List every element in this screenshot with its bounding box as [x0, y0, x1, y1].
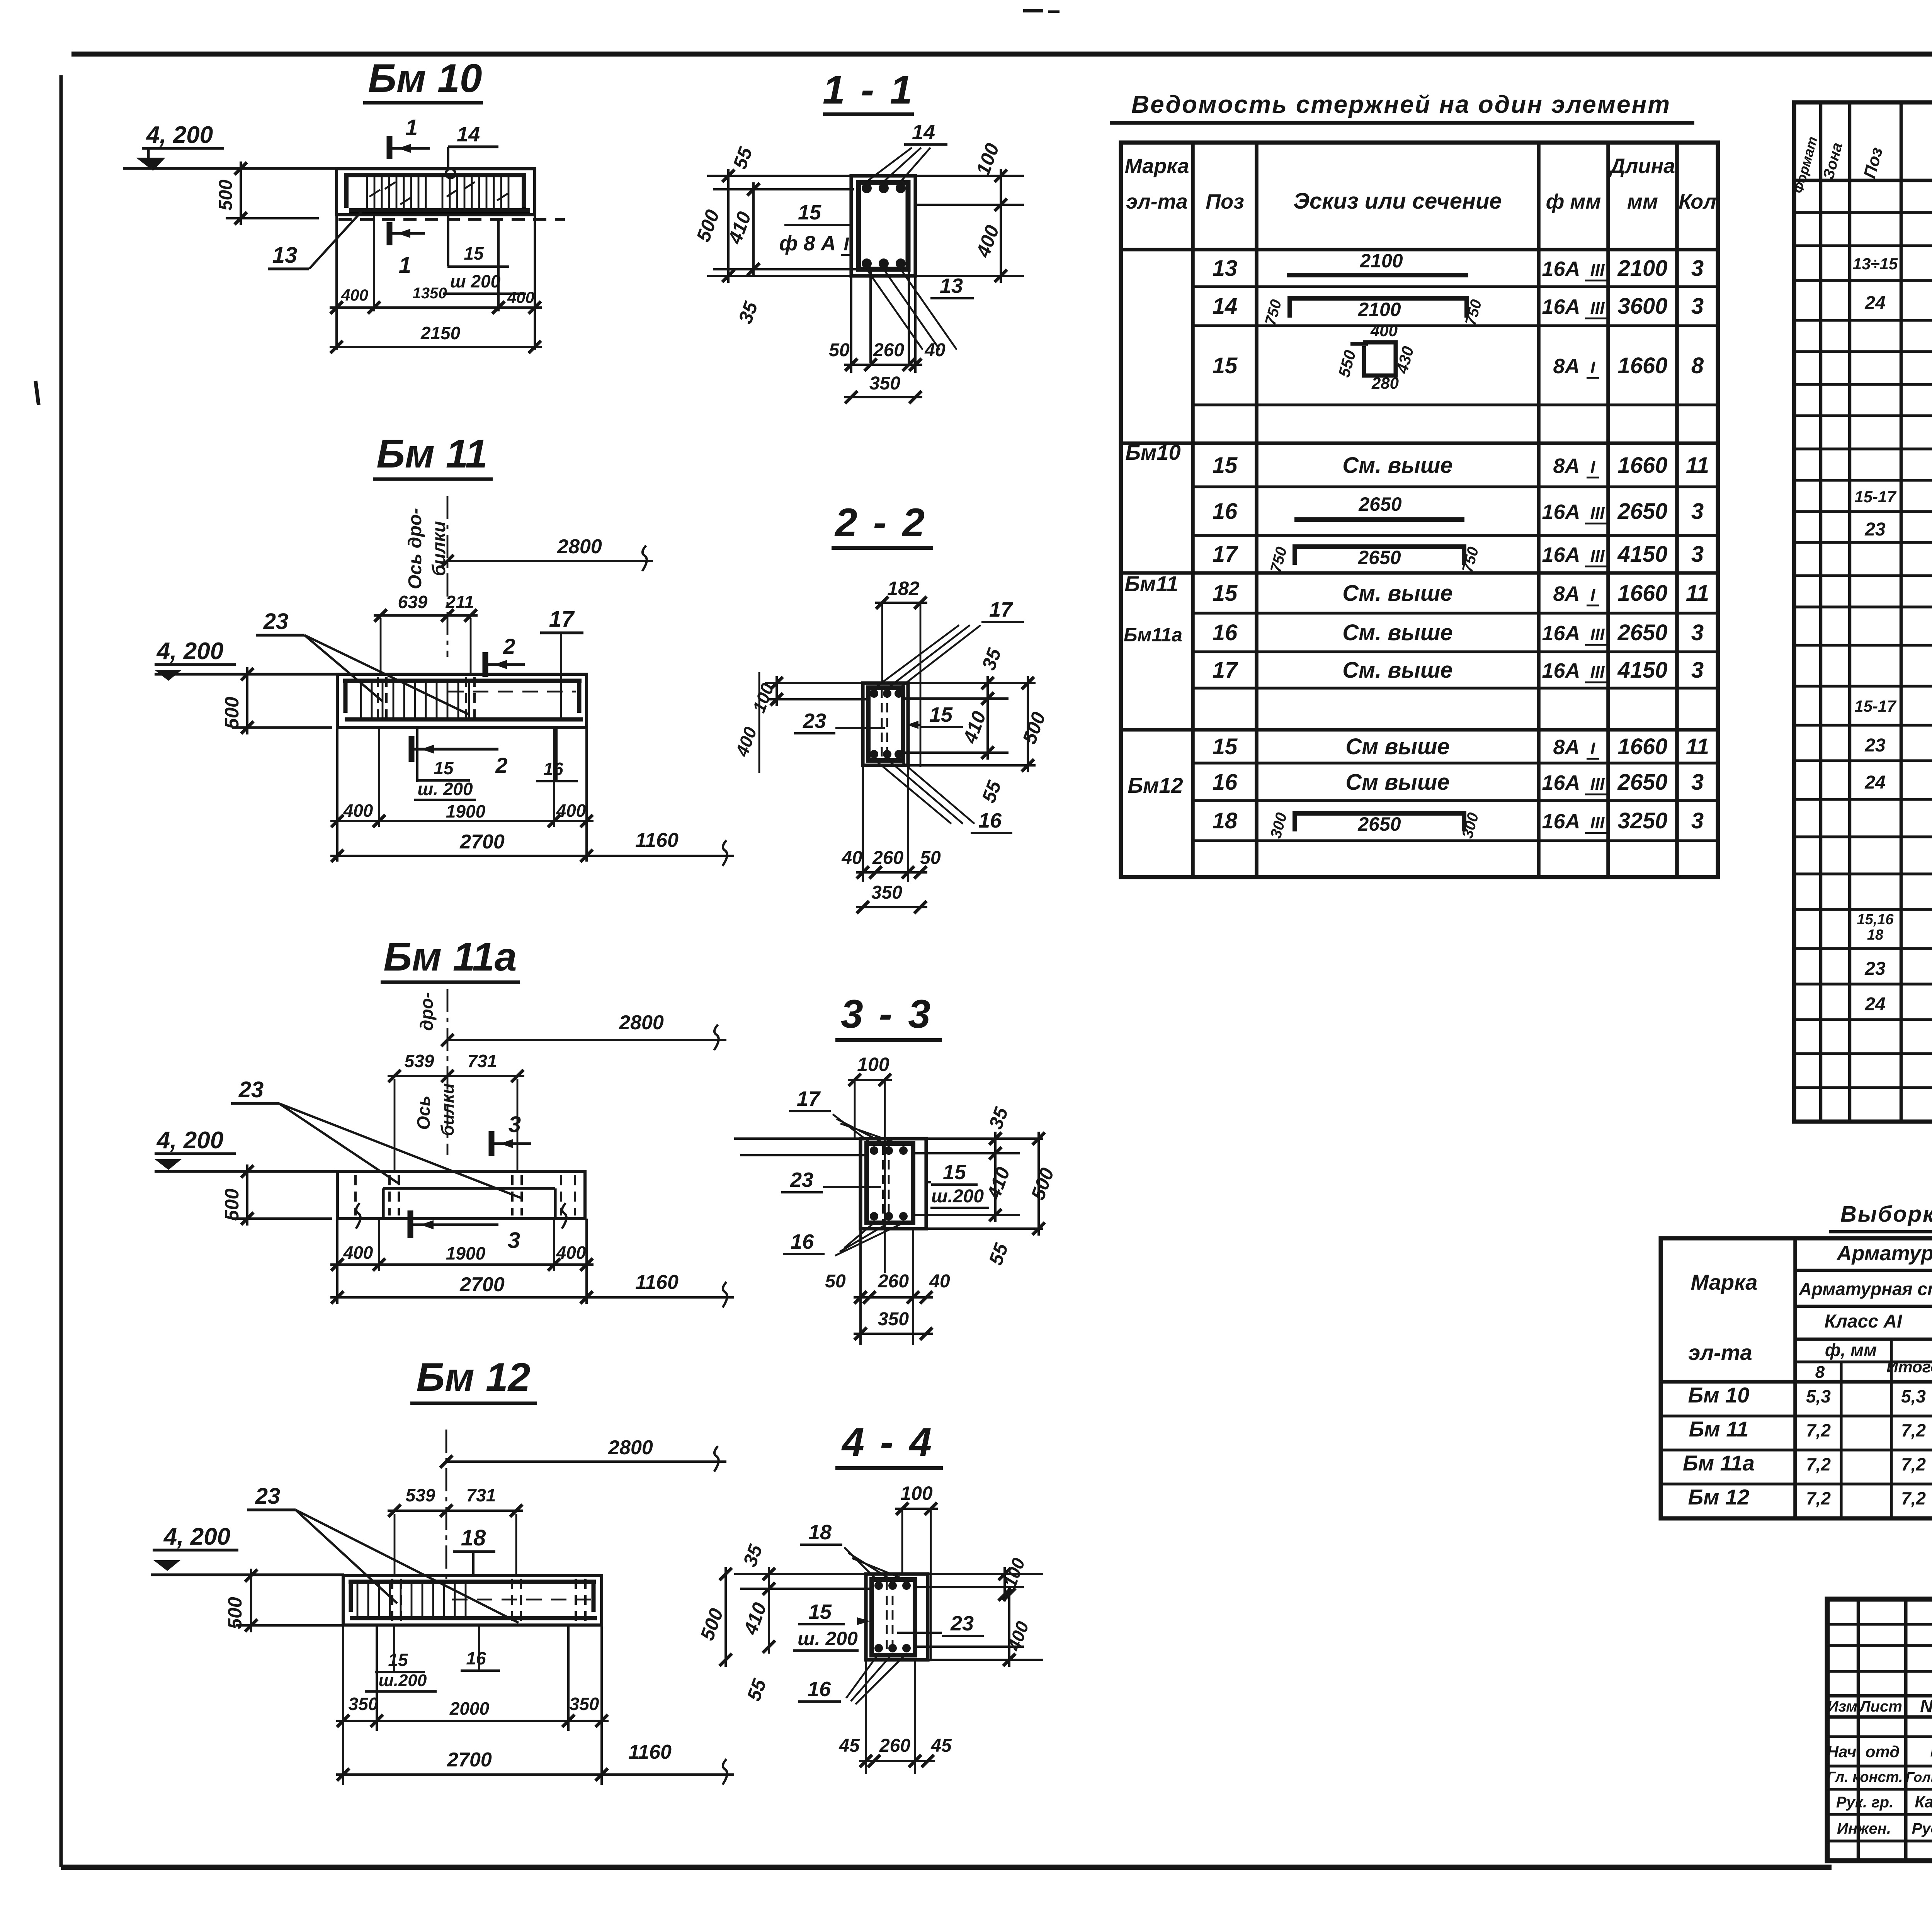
- svg-text:16А: 16А: [1542, 500, 1580, 524]
- svg-text:7,2: 7,2: [1806, 1488, 1831, 1508]
- svg-text:Гольденшлюгер: Гольденшлюгер: [1906, 1769, 1932, 1785]
- beam Бм11 outline: [337, 674, 587, 728]
- svg-text:Г и н: Г и н: [1930, 1741, 1932, 1760]
- svg-text:2100: 2100: [1617, 256, 1667, 281]
- right hook pair (Бм11): [560, 683, 562, 719]
- svg-text:500: 500: [224, 1597, 246, 1629]
- svg-text:100: 100: [857, 1054, 889, 1075]
- svg-text:3: 3: [1691, 542, 1704, 567]
- svg-text:500: 500: [696, 1605, 727, 1643]
- svg-text:N докум: N докум: [1920, 1696, 1932, 1716]
- svg-text:I: I: [1590, 358, 1595, 377]
- section 2-2 concrete outline: [863, 683, 908, 765]
- svg-text:Инжен.: Инжен.: [1837, 1820, 1891, 1837]
- svg-text:Рудеровская: Рудеровская: [1912, 1820, 1932, 1837]
- svg-text:23: 23: [1864, 519, 1886, 540]
- svg-text:300: 300: [1267, 811, 1291, 840]
- svg-text:1: 1: [405, 115, 418, 140]
- svg-text:Эскиз или сечение: Эскиз или сечение: [1293, 189, 1502, 214]
- rebar 13 bottom bar (Бм10): [349, 208, 530, 213]
- svg-text:Касьянова: Касьянова: [1915, 1793, 1932, 1811]
- svg-text:Бм10: Бм10: [1125, 440, 1180, 464]
- extension lines below 3-3: [859, 1229, 862, 1345]
- title block Изм Лист row: [1827, 1694, 1932, 1698]
- svg-text:I: I: [1590, 586, 1595, 605]
- svg-text:16А: 16А: [1542, 295, 1580, 318]
- ground line (Бм12): [151, 1573, 344, 1576]
- axis centerline (Бм12): [446, 1430, 447, 1580]
- svg-text:8: 8: [1691, 353, 1704, 378]
- svg-text:1160: 1160: [635, 1271, 679, 1294]
- svg-text:50: 50: [920, 848, 941, 868]
- svg-text:1160: 1160: [635, 829, 679, 852]
- dashed line mid (Бм12): [452, 1599, 591, 1601]
- svg-text:ш.200: ш.200: [931, 1186, 984, 1207]
- table Ведомость sketch row 15: square 400x430x550x280: [1363, 342, 1396, 376]
- label 15 ш.200 (Бм12): [393, 1625, 395, 1672]
- svg-text:3: 3: [508, 1228, 520, 1253]
- table Выборка header bottom thick line: [1661, 1380, 1932, 1384]
- svg-text:3250: 3250: [1617, 808, 1667, 833]
- svg-text:500: 500: [1018, 709, 1049, 747]
- svg-text:Бм 11а: Бм 11а: [383, 935, 517, 979]
- svg-text:2650: 2650: [1357, 813, 1401, 835]
- section 1-1 concrete outline: [851, 176, 915, 276]
- rebar top bar 18 (Бм12): [349, 1580, 596, 1584]
- table Выборка data row lines: [1661, 1414, 1932, 1417]
- table Ведомость sketch row 18: bent bar 300-2650-300: [1293, 811, 1466, 816]
- svg-text:3 - 3: 3 - 3: [841, 992, 933, 1037]
- svg-text:7,2: 7,2: [1806, 1420, 1831, 1440]
- svg-text:500: 500: [1027, 1165, 1058, 1203]
- svg-text:14: 14: [1213, 294, 1238, 319]
- table Ведомость sketch row 17: bent bar 750-2650-750: [1293, 544, 1466, 549]
- svg-text:400: 400: [972, 222, 1003, 260]
- svg-text:ф, мм: ф, мм: [1825, 1340, 1877, 1360]
- svg-text:260: 260: [872, 848, 903, 868]
- svg-text:Бм11: Бм11: [1124, 571, 1178, 596]
- svg-text:7,2: 7,2: [1901, 1420, 1926, 1440]
- svg-text:350: 350: [349, 1694, 378, 1714]
- svg-text:3: 3: [1691, 658, 1704, 683]
- svg-text:400: 400: [1003, 1618, 1033, 1654]
- label 15 ш 200 with leader (Бм10): [447, 216, 449, 266]
- svg-text:16: 16: [978, 809, 1002, 832]
- svg-text:639: 639: [398, 592, 428, 612]
- svg-text:14: 14: [912, 121, 935, 144]
- svg-text:16: 16: [1213, 499, 1238, 524]
- svg-text:Гл. конст.: Гл. конст.: [1827, 1769, 1903, 1785]
- svg-text:16А: 16А: [1542, 810, 1580, 833]
- svg-text:500: 500: [216, 180, 236, 211]
- svg-text:400: 400: [507, 288, 534, 306]
- section 4-4 stirrup: [872, 1579, 915, 1655]
- scan artifact dash top centre: [1023, 9, 1043, 12]
- svg-text:Марка: Марка: [1691, 1270, 1758, 1294]
- svg-text:эл-та: эл-та: [1688, 1340, 1752, 1365]
- svg-text:15: 15: [1213, 734, 1238, 759]
- svg-text:14: 14: [457, 123, 480, 146]
- svg-text:См выше: См выше: [1345, 770, 1449, 795]
- svg-text:16: 16: [466, 1648, 486, 1668]
- section mark 2 top (Бм11): [483, 652, 488, 677]
- dimension 400 left (2-2): [759, 672, 760, 773]
- svg-text:1660: 1660: [1617, 453, 1667, 478]
- svg-text:280: 280: [1371, 374, 1399, 392]
- svg-text:Бм 12: Бм 12: [416, 1355, 530, 1400]
- svg-text:35: 35: [734, 298, 762, 326]
- stirrup tick marks (Бм10): [369, 190, 380, 197]
- svg-text:2700: 2700: [459, 1273, 505, 1296]
- svg-text:2650: 2650: [1617, 499, 1667, 524]
- dimension 500 vertical (Бм12): [236, 1624, 342, 1627]
- svg-text:1660: 1660: [1617, 581, 1667, 606]
- svg-text:16: 16: [808, 1678, 831, 1701]
- svg-text:III: III: [1590, 663, 1605, 682]
- dashed embed bars (Бм11а): [388, 1175, 391, 1215]
- svg-text:Класс АI: Класс АI: [1825, 1311, 1903, 1332]
- svg-text:Изм: Изм: [1827, 1698, 1857, 1715]
- svg-text:260: 260: [878, 1271, 909, 1292]
- svg-text:7,2: 7,2: [1901, 1454, 1926, 1474]
- svg-text:16А: 16А: [1542, 257, 1580, 280]
- svg-text:3: 3: [1691, 256, 1704, 281]
- svg-text:2650: 2650: [1358, 493, 1401, 515]
- svg-text:Бм 11: Бм 11: [1689, 1417, 1749, 1441]
- svg-text:13: 13: [272, 243, 298, 268]
- section 4-4 rebar dots bottom: [874, 1644, 883, 1652]
- svg-text:Зона: Зона: [1820, 141, 1846, 181]
- table Выборка internal column lines: [1840, 1362, 1842, 1518]
- svg-text:17: 17: [989, 598, 1014, 621]
- section mark 3 bottom (Бм11а): [408, 1210, 413, 1238]
- svg-text:750: 750: [1267, 545, 1291, 575]
- svg-text:40: 40: [929, 1271, 950, 1292]
- svg-text:1 - 1: 1 - 1: [823, 68, 915, 112]
- svg-text:55: 55: [985, 1240, 1012, 1268]
- svg-text:Бм 11а: Бм 11а: [1683, 1451, 1755, 1475]
- dimension 100 left (2-2): [776, 676, 778, 706]
- svg-text:400: 400: [556, 801, 586, 821]
- svg-text:ф мм: ф мм: [1546, 190, 1601, 213]
- svg-text:13: 13: [940, 274, 963, 297]
- rebar bottom bar 16 (Бм12): [350, 1616, 597, 1620]
- svg-text:15: 15: [798, 201, 821, 224]
- svg-text:16: 16: [1213, 620, 1238, 645]
- table Выборка outer border: [1661, 1238, 1932, 1518]
- svg-text:16А: 16А: [1542, 622, 1580, 645]
- svg-text:40: 40: [841, 848, 862, 868]
- beam Бм12 outline: [343, 1576, 602, 1625]
- svg-text:731: 731: [468, 1051, 497, 1071]
- svg-text:III: III: [1590, 504, 1605, 523]
- svg-text:ш.200: ш.200: [379, 1671, 427, 1690]
- svg-text:билки: билки: [437, 1083, 457, 1136]
- svg-text:16А: 16А: [1542, 543, 1580, 566]
- break squiggles on bottom edge (Бм11а): [356, 1203, 361, 1229]
- title block left rows: [1827, 1623, 1932, 1625]
- svg-text:7,2: 7,2: [1806, 1454, 1831, 1474]
- stirrups 15 (Бм10): [366, 176, 368, 212]
- extension lines below beam (Бм10): [335, 169, 338, 350]
- svg-text:500: 500: [221, 697, 243, 729]
- svg-text:15: 15: [943, 1161, 966, 1184]
- rebar bottom bar 16 (Бм11): [345, 717, 583, 722]
- svg-text:III: III: [1590, 625, 1605, 644]
- svg-text:410: 410: [959, 708, 990, 746]
- ground line (Бм10): [123, 167, 337, 170]
- dimension 500 vertical (Бм11а): [232, 1217, 332, 1220]
- table Ведомость sketch row 13: straight bar 2100: [1287, 273, 1468, 277]
- dimension 100 400 right (4-4): [1003, 1567, 1006, 1601]
- svg-text:350: 350: [570, 1694, 599, 1714]
- svg-text:Ось: Ось: [413, 1096, 434, 1130]
- svg-text:2 - 2: 2 - 2: [834, 500, 927, 545]
- svg-text:8А: 8А: [1553, 736, 1580, 759]
- svg-text:23: 23: [255, 1484, 281, 1509]
- svg-text:182: 182: [887, 578, 920, 599]
- svg-text:400: 400: [341, 286, 368, 304]
- sheet frame top border: [71, 52, 1932, 57]
- svg-text:5,3: 5,3: [1806, 1386, 1831, 1406]
- svg-text:Поз: Поз: [1860, 145, 1886, 180]
- svg-text:ф 8 А: ф 8 А: [779, 232, 836, 255]
- beam Бм11а outline: [337, 1171, 585, 1219]
- svg-text:ш 200: ш 200: [450, 271, 501, 291]
- sheet frame bottom border: [61, 1865, 1832, 1870]
- svg-text:350: 350: [869, 373, 900, 394]
- svg-text:35: 35: [985, 1104, 1012, 1132]
- spec table row lines: [1794, 179, 1932, 182]
- svg-text:2650: 2650: [1617, 770, 1667, 795]
- svg-text:1350: 1350: [413, 285, 447, 302]
- svg-text:260: 260: [879, 1736, 910, 1756]
- svg-text:III: III: [1590, 547, 1605, 566]
- svg-text:1: 1: [399, 253, 411, 278]
- svg-text:45: 45: [838, 1736, 860, 1756]
- spec table column lines: [1819, 102, 1822, 1122]
- svg-text:III: III: [1590, 775, 1605, 794]
- dashed embed bars 23 (Бм11): [377, 677, 379, 726]
- svg-text:17: 17: [549, 607, 575, 632]
- section 1-1 top rebar dots: [862, 183, 872, 193]
- svg-text:Бм 12: Бм 12: [1688, 1485, 1750, 1509]
- spec table outer border: [1794, 102, 1932, 1122]
- dimension 500 vertical (Бм10): [226, 217, 319, 219]
- svg-text:15,16: 15,16: [1857, 911, 1894, 928]
- svg-text:I: I: [1590, 458, 1595, 477]
- dashed line mid (Бм11): [448, 691, 576, 693]
- svg-text:1660: 1660: [1617, 353, 1667, 378]
- svg-text:45: 45: [930, 1736, 952, 1756]
- svg-text:Арматурные изделия: Арматурные изделия: [1836, 1242, 1932, 1265]
- svg-text:1660: 1660: [1617, 734, 1667, 759]
- rebar 14 top bar with hooks (Бм10): [344, 173, 526, 177]
- svg-text:См выше: См выше: [1345, 734, 1449, 759]
- svg-text:8А: 8А: [1553, 582, 1580, 605]
- section 1-1 stirrup (thick inner rect): [859, 182, 908, 269]
- title block signature rows: [1827, 1735, 1932, 1738]
- svg-text:3: 3: [1691, 620, 1704, 645]
- svg-text:400: 400: [343, 1243, 373, 1263]
- section 2-2 rebar dots bottom: [870, 750, 878, 758]
- svg-text:18: 18: [808, 1521, 832, 1544]
- svg-text:16: 16: [791, 1230, 814, 1253]
- svg-text:дро-: дро-: [417, 992, 437, 1031]
- svg-text:3: 3: [1691, 770, 1704, 795]
- dimensions right of 1-1: 100 400: [915, 175, 1024, 177]
- svg-text:См. выше: См. выше: [1342, 620, 1452, 645]
- svg-text:16: 16: [1213, 770, 1238, 795]
- svg-text:4, 200: 4, 200: [156, 1127, 223, 1154]
- svg-text:2800: 2800: [557, 535, 602, 558]
- beam Бм10 outline: [337, 169, 535, 215]
- axis centerline (Бм11): [447, 496, 449, 657]
- section 4-4 concrete outline: [866, 1574, 928, 1660]
- label 14 leaders (1-1): [867, 148, 912, 182]
- section mark 3 top (Бм11а): [489, 1131, 495, 1156]
- svg-text:4150: 4150: [1617, 658, 1667, 683]
- svg-text:См. выше: См. выше: [1342, 581, 1452, 606]
- svg-text:23: 23: [790, 1168, 813, 1192]
- svg-text:16А: 16А: [1542, 659, 1580, 682]
- svg-text:2800: 2800: [608, 1436, 653, 1459]
- svg-text:731: 731: [466, 1485, 496, 1505]
- svg-text:100: 100: [972, 140, 1003, 178]
- dimension 500 vertical (Бм11): [232, 726, 332, 729]
- svg-text:2100: 2100: [1357, 299, 1401, 320]
- svg-text:23: 23: [950, 1612, 974, 1635]
- svg-text:Длина: Длина: [1609, 155, 1675, 178]
- svg-text:15: 15: [388, 1650, 408, 1670]
- svg-text:7,2: 7,2: [1901, 1488, 1926, 1508]
- svg-text:18: 18: [1213, 808, 1238, 833]
- svg-text:400: 400: [343, 801, 373, 821]
- svg-text:2000: 2000: [449, 1698, 490, 1719]
- svg-text:16А: 16А: [1542, 771, 1580, 794]
- section 2-2 stirrup: [868, 688, 903, 760]
- beam Бм10 dashed underside: [338, 218, 565, 221]
- svg-text:III: III: [1590, 299, 1605, 318]
- svg-text:Бм 10: Бм 10: [368, 56, 482, 101]
- svg-text:50: 50: [829, 340, 850, 360]
- svg-text:539: 539: [406, 1485, 435, 1505]
- extension lines (Бм11): [336, 728, 338, 862]
- svg-text:23: 23: [263, 609, 289, 634]
- label 15 ш.200 (Бм11): [416, 728, 418, 782]
- svg-text:23: 23: [1864, 959, 1886, 979]
- section 4-4 dashed embed bars: [886, 1581, 888, 1654]
- svg-text:18: 18: [461, 1525, 486, 1550]
- axis centerline (Бм11а): [447, 989, 449, 1155]
- svg-text:4, 200: 4, 200: [156, 638, 223, 665]
- svg-text:400: 400: [1370, 321, 1398, 340]
- svg-text:4, 200: 4, 200: [146, 122, 213, 148]
- svg-text:17: 17: [1213, 542, 1238, 567]
- svg-text:Рук. гр.: Рук. гр.: [1836, 1794, 1893, 1811]
- svg-text:23: 23: [238, 1077, 264, 1102]
- table Ведомость row lines: [1121, 248, 1718, 252]
- svg-text:500: 500: [692, 207, 723, 245]
- table Ведомость sketch row 14: bent bar 750-2100-750: [1287, 296, 1469, 301]
- svg-text:4 - 4: 4 - 4: [841, 1420, 934, 1465]
- svg-text:Бм 10: Бм 10: [1688, 1383, 1750, 1407]
- ground line (Бм11а): [155, 1170, 338, 1173]
- svg-text:3600: 3600: [1617, 294, 1667, 319]
- svg-text:2150: 2150: [420, 323, 461, 343]
- svg-text:2: 2: [503, 634, 515, 658]
- svg-text:13: 13: [1213, 256, 1238, 281]
- svg-text:11: 11: [1686, 581, 1709, 606]
- svg-text:I: I: [1590, 739, 1595, 758]
- section 3-3 dashed embed bars: [882, 1146, 884, 1223]
- section 2-2 dashed embed bars: [881, 688, 883, 759]
- svg-text:2100: 2100: [1359, 250, 1403, 272]
- section 1-1 bottom rebar dots: [862, 258, 872, 269]
- svg-text:11: 11: [1686, 734, 1709, 759]
- svg-text:350: 350: [871, 882, 902, 903]
- svg-text:1900: 1900: [446, 1243, 486, 1263]
- title block left column verticals: [1857, 1599, 1860, 1861]
- svg-text:Бм11а: Бм11а: [1124, 624, 1182, 646]
- section 4-4 rebar dots top: [874, 1581, 883, 1590]
- svg-text:4150: 4150: [1617, 542, 1667, 567]
- svg-text:100: 100: [900, 1482, 933, 1504]
- svg-text:410: 410: [983, 1164, 1014, 1202]
- svg-text:24: 24: [1864, 994, 1885, 1015]
- svg-text:23: 23: [803, 709, 826, 733]
- svg-text:3: 3: [1691, 499, 1704, 524]
- svg-text:18: 18: [1867, 927, 1884, 943]
- embed mark circle 14 (Бм10): [446, 169, 455, 178]
- svg-text:550: 550: [1335, 348, 1359, 379]
- svg-text:III: III: [1590, 261, 1605, 280]
- scan artifact blob left edge: [36, 381, 39, 405]
- svg-text:55: 55: [978, 777, 1005, 806]
- section mark 2 bottom (Бм11): [409, 736, 415, 762]
- section 2-2 rebar dots top: [870, 689, 878, 698]
- svg-text:55: 55: [729, 144, 757, 172]
- extension lines (Бм12): [342, 1625, 344, 1785]
- svg-text:2650: 2650: [1617, 620, 1667, 645]
- svg-text:5,3: 5,3: [1901, 1386, 1926, 1406]
- svg-text:1160: 1160: [628, 1741, 672, 1763]
- extension lines (3-3): [734, 1137, 861, 1140]
- svg-text:ш. 200: ш. 200: [417, 779, 473, 799]
- svg-text:15-17: 15-17: [1854, 697, 1896, 715]
- svg-text:I: I: [844, 234, 849, 255]
- svg-text:ш. 200: ш. 200: [798, 1628, 858, 1649]
- svg-text:билки: билки: [429, 521, 449, 576]
- svg-text:См. выше: См. выше: [1342, 658, 1452, 683]
- svg-text:17: 17: [1213, 658, 1238, 683]
- svg-text:50: 50: [825, 1271, 846, 1292]
- section 1-1 extension lines top: [707, 175, 851, 177]
- svg-text:40: 40: [924, 340, 946, 360]
- svg-text:2700: 2700: [459, 831, 505, 853]
- section mark 1 top (Бм10): [387, 136, 393, 159]
- section 3-3 rebar dots bottom: [870, 1212, 878, 1221]
- section 3-3 concrete outline: [861, 1139, 926, 1229]
- svg-text:539: 539: [405, 1051, 434, 1071]
- svg-text:2650: 2650: [1357, 547, 1401, 568]
- svg-text:Выборка стали на один: Выборка стали на один элемент , кг: [1840, 1202, 1932, 1227]
- svg-text:211: 211: [445, 592, 474, 612]
- svg-text:100: 100: [1000, 1555, 1029, 1590]
- svg-text:55: 55: [743, 1676, 770, 1704]
- svg-text:15: 15: [434, 758, 454, 778]
- svg-text:400: 400: [731, 724, 761, 759]
